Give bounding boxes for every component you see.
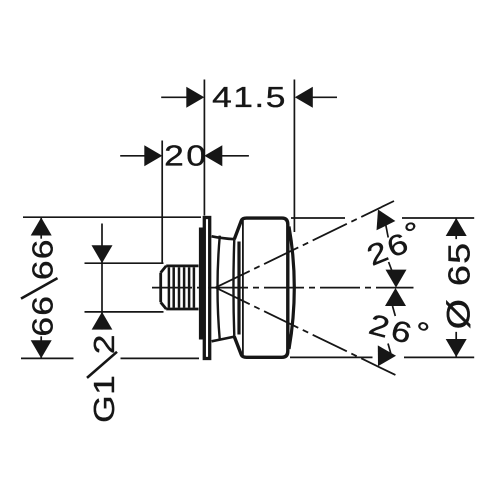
label G 1/2 — [88, 330, 120, 423]
extension line D65 bottom — [290, 356, 474, 358]
spray axis lower ray 26deg — [216, 288, 396, 375]
label G 1/2 fraction slash — [87, 352, 117, 378]
extension line 41.5 left — [203, 80, 205, 216]
dimension line 20 tails — [120, 155, 249, 157]
label 66/66 fraction slash — [21, 278, 58, 299]
extension line D65 top segment a — [291, 217, 345, 219]
body left edge line — [242, 220, 244, 355]
thread lines — [169, 267, 194, 307]
sleeve left rim arc — [218, 236, 220, 341]
extension line 20 left — [161, 141, 163, 264]
label 26deg lower — [366, 303, 436, 355]
svg-text:66: 66 — [27, 238, 59, 280]
angle dim arc tail upper b — [389, 262, 393, 272]
dimension line G1/2 — [101, 224, 103, 338]
arrow 20 right — [204, 145, 222, 166]
sleeve top edge — [212, 236, 235, 239]
svg-text:Ø 65: Ø 65 — [441, 242, 477, 330]
arrow G1/2 up — [92, 312, 113, 330]
arrow lower-26 at centerline — [385, 288, 406, 306]
jet body outline — [234, 218, 287, 357]
arrow D65 down — [446, 339, 467, 357]
arrow G1/2 down — [92, 245, 113, 263]
spray face arc — [289, 227, 294, 350]
arrow D65 up — [446, 218, 467, 236]
sleeve bottom edge — [212, 337, 235, 342]
label 66/66 — [27, 238, 59, 336]
extension line G1/2 bottom — [85, 311, 164, 313]
arrow 20 left — [144, 145, 162, 166]
extension line G1/2 top — [85, 262, 164, 264]
extension line 66/66 bottom — [21, 357, 199, 359]
arrow 41.5 right — [295, 87, 313, 108]
thread nipple G1/2 outline — [161, 266, 199, 309]
spray axis upper ray 26deg — [216, 201, 395, 288]
extension line 66/66 top — [23, 216, 201, 218]
svg-text:66: 66 — [27, 295, 59, 337]
back plate (escutcheon behind wall plate) — [199, 228, 206, 340]
label diameter 65 — [441, 239, 477, 332]
label 41.5 — [212, 81, 287, 113]
arrow 41.5 left — [186, 87, 204, 108]
centerline (horizontal dash-dot axis) — [152, 287, 414, 289]
label 20 — [164, 139, 208, 171]
arrow upper-26 at centerline — [386, 270, 407, 288]
svg-text:20: 20 — [164, 139, 208, 171]
svg-text:1: 1 — [88, 375, 120, 395]
arrow 66/66 up — [31, 218, 52, 236]
sleeve right rim arc — [232, 239, 235, 336]
arrow 66/66 down — [31, 340, 52, 358]
svg-text:2: 2 — [88, 335, 120, 355]
angle dim arc tail lower a — [393, 306, 396, 316]
angle dim arc tail lower b — [388, 344, 391, 354]
arrow on lower ray (26deg) — [369, 345, 396, 371]
dimension line 41.5 tails — [161, 96, 337, 98]
angle dim arc tail upper a — [386, 225, 389, 238]
extension line D65 top segment b — [402, 217, 474, 219]
label 26deg upper — [360, 214, 429, 272]
arrow on upper ray (26deg) — [369, 205, 396, 230]
svg-text:41.5: 41.5 — [212, 81, 287, 113]
dimension line D65 — [455, 218, 457, 357]
body crease line — [237, 242, 240, 335]
dimension line 66/66 — [40, 218, 42, 359]
wall plate flange — [204, 218, 209, 359]
svg-text:G: G — [88, 395, 120, 423]
extension line 41.5 right — [293, 80, 295, 233]
